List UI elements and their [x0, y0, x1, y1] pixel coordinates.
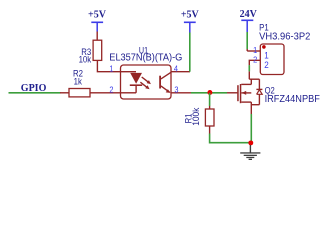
- svg-text:1: 1: [109, 64, 114, 74]
- P1 pin-1 marker dot: [262, 45, 266, 49]
- label EL357N(B)(TA)-G: [109, 52, 182, 63]
- net label GPIO: [21, 83, 47, 94]
- U1 LED: [121, 72, 143, 93]
- label U1: [139, 46, 149, 56]
- svg-text:IRFZ44NPBF: IRFZ44NPBF: [265, 94, 320, 105]
- transistor Q2: [237, 84, 251, 103]
- Q2 gate pin: [227, 92, 237, 94]
- U1 phototransistor: [159, 72, 171, 93]
- label IRFZ44NPBF: [265, 94, 320, 105]
- wire 24V to P1 pin 1: [246, 32, 248, 51]
- label Q2: [265, 85, 276, 96]
- svg-text:3: 3: [174, 85, 179, 95]
- power 24V: [240, 9, 258, 32]
- junction at R1 top: [207, 90, 212, 95]
- U1 pin 1: [109, 64, 114, 74]
- svg-text:4: 4: [174, 64, 179, 74]
- label 1k: [74, 76, 83, 87]
- label VH3.96-3P2: [259, 31, 310, 42]
- wire +5V to U1 pin 4: [189, 33, 191, 72]
- svg-text:2: 2: [253, 55, 257, 65]
- U1 light arrows: [140, 77, 151, 89]
- U1 pin 2: [109, 85, 113, 95]
- svg-text:+5V: +5V: [181, 10, 200, 21]
- optocoupler U1 box: [121, 65, 172, 99]
- wire Q2 drain to P1 pin 2: [249, 60, 260, 79]
- wire GPIO to R2: [9, 92, 61, 94]
- svg-text:+5V: +5V: [88, 10, 107, 21]
- U1 pin 3: [171, 85, 191, 95]
- svg-text:24V: 24V: [240, 9, 258, 20]
- wire R1 to ground: [210, 134, 252, 143]
- svg-text:EL357N(B)(TA)-G: EL357N(B)(TA)-G: [109, 52, 182, 63]
- U1 pin 4: [171, 64, 190, 74]
- resistor R2: [60, 89, 121, 97]
- label 100k: [191, 107, 201, 126]
- label P1: [259, 22, 269, 33]
- label 10k: [79, 54, 92, 65]
- svg-text:2: 2: [109, 85, 113, 95]
- power +5V (right): [181, 10, 200, 33]
- svg-text:100k: 100k: [191, 107, 201, 126]
- connector P1 box: [260, 44, 284, 75]
- Q2 body diode: [249, 79, 262, 114]
- svg-text:2: 2: [264, 60, 269, 71]
- wire Q2 source to ground: [250, 114, 252, 143]
- resistor R3: [93, 32, 120, 72]
- svg-text:VH3.96-3P2: VH3.96-3P2: [259, 31, 310, 42]
- label R1: [183, 113, 194, 123]
- P1 pin 2: [253, 55, 269, 70]
- label R2: [73, 68, 83, 79]
- power +5V (left): [88, 10, 107, 32]
- junction at ground: [248, 140, 253, 145]
- svg-text:1: 1: [253, 45, 258, 55]
- svg-text:10k: 10k: [79, 54, 92, 65]
- ground: [240, 145, 260, 160]
- svg-text:1k: 1k: [74, 76, 83, 87]
- wire U1 pin 3 to Q2 gate: [191, 92, 227, 94]
- label R3: [81, 46, 91, 57]
- resistor R1: [205, 93, 214, 134]
- P1 pin 1: [247, 45, 269, 60]
